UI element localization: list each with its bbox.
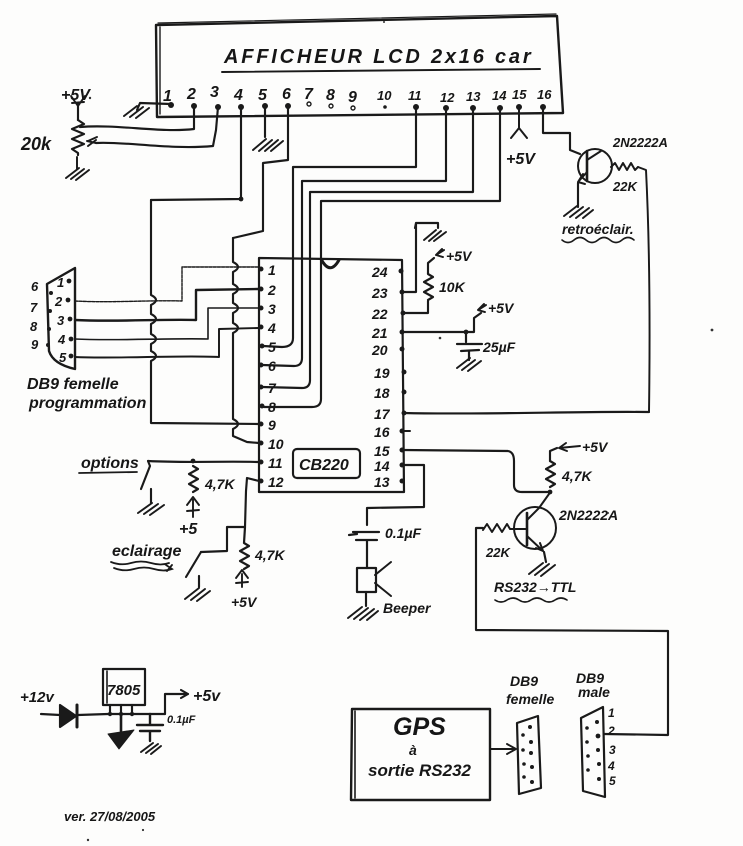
svg-text:+5: +5 bbox=[179, 521, 198, 538]
svg-text:+5V: +5V bbox=[506, 151, 536, 168]
wire pin16 to Q1 base bbox=[543, 107, 580, 154]
svg-text:7: 7 bbox=[268, 380, 277, 396]
svg-text:16: 16 bbox=[374, 424, 390, 440]
svg-text:8: 8 bbox=[268, 399, 276, 415]
svg-text:23: 23 bbox=[371, 285, 388, 301]
wire beeper to ground bbox=[365, 592, 367, 606]
wire wavy underline RS232-TTL bbox=[495, 598, 567, 602]
svg-text:9: 9 bbox=[348, 89, 357, 106]
svg-text:+5v: +5v bbox=[193, 688, 221, 705]
node pin5 bbox=[262, 103, 268, 109]
node pin8 bbox=[329, 104, 333, 108]
svg-text:DB9: DB9 bbox=[510, 673, 538, 689]
svg-text:13: 13 bbox=[374, 474, 390, 490]
wire CB220 pin12 to eclairage node bbox=[245, 478, 259, 527]
node J1 pin7 bbox=[48, 309, 52, 313]
transistor Q1 2N2222A bbox=[578, 149, 612, 183]
node J2 pins bbox=[528, 725, 532, 729]
svg-text:4,7K: 4,7K bbox=[204, 476, 235, 492]
svg-text:4: 4 bbox=[233, 87, 243, 104]
svg-text:2: 2 bbox=[607, 724, 615, 738]
svg-text:5: 5 bbox=[258, 87, 268, 104]
svg-text:14: 14 bbox=[492, 88, 507, 103]
wire emitter bbox=[577, 183, 579, 207]
node CB220 left pins 1-12 bbox=[259, 267, 264, 272]
ground bbox=[253, 139, 283, 151]
wire legs bbox=[110, 705, 132, 714]
wire pin11 to CB220 pin5 bbox=[263, 107, 416, 347]
wiper arrow bbox=[87, 137, 97, 146]
svg-text:+5V: +5V bbox=[582, 439, 609, 455]
svg-text:15: 15 bbox=[512, 87, 527, 102]
power +5V arrow bbox=[436, 249, 444, 257]
node pin7 bbox=[307, 102, 311, 106]
wire vertical bus V1 to CB220 pin9 bbox=[151, 200, 259, 424]
node J1 pin3 bbox=[68, 317, 73, 322]
svg-text:0.1µF: 0.1µF bbox=[385, 525, 422, 541]
svg-text:GPS: GPS bbox=[393, 713, 446, 741]
wire bbox=[137, 103, 171, 110]
node J1 pin5 bbox=[69, 354, 74, 359]
node pin16 bbox=[540, 104, 546, 110]
node junction bbox=[464, 330, 469, 335]
svg-text:7805: 7805 bbox=[107, 682, 141, 699]
node CB220 right pins 24-13 bbox=[399, 269, 404, 274]
ground bbox=[66, 157, 89, 180]
node pin1 bbox=[168, 102, 174, 108]
ground bbox=[529, 563, 555, 576]
wire pin5 to ground bbox=[264, 106, 266, 137]
svg-text:15: 15 bbox=[374, 443, 390, 459]
resistor R7 4.7K eclairage bbox=[240, 527, 249, 569]
svg-text:+5V: +5V bbox=[61, 87, 91, 104]
svg-text:+12v: +12v bbox=[20, 689, 55, 706]
wire title underline bbox=[222, 69, 540, 72]
svg-text:19: 19 bbox=[374, 365, 390, 381]
node junction bbox=[191, 459, 196, 464]
power +5V pin15 bbox=[511, 107, 527, 138]
node J3 pins bbox=[595, 720, 599, 724]
svg-text:16: 16 bbox=[537, 87, 552, 102]
svg-text:12: 12 bbox=[440, 90, 455, 105]
svg-text:options: options bbox=[81, 455, 139, 472]
svg-text:4: 4 bbox=[267, 320, 276, 336]
node pin2 bbox=[191, 103, 197, 109]
transistor Q2 2N2222A bbox=[514, 507, 556, 549]
connector J3 DB9 male bbox=[581, 707, 605, 797]
svg-text:1: 1 bbox=[163, 88, 172, 105]
svg-text:4: 4 bbox=[57, 332, 66, 347]
node J1 pin9 bbox=[46, 343, 50, 347]
wire pin14 to CB220 pin8 bbox=[264, 108, 500, 407]
svg-text:14: 14 bbox=[374, 458, 390, 474]
node J1 pin1 bbox=[67, 279, 72, 284]
wire CB220 pin16 stub bbox=[402, 430, 410, 432]
svg-text:17: 17 bbox=[374, 406, 391, 422]
wire pin12 to CB220 pin6 bbox=[262, 108, 446, 366]
svg-text:6: 6 bbox=[282, 86, 291, 103]
wire options to CB220 pin11 bbox=[148, 461, 258, 462]
wire CB220 pin15 to Q2 collector bbox=[402, 450, 548, 492]
svg-text:6: 6 bbox=[31, 279, 39, 294]
svg-text:5: 5 bbox=[609, 774, 616, 788]
svg-text:à: à bbox=[409, 742, 417, 758]
node J1 pin8 bbox=[47, 327, 51, 331]
svg-text:2N2222A: 2N2222A bbox=[558, 507, 618, 523]
svg-text:7: 7 bbox=[304, 86, 314, 103]
wire CB220 pin23 to ground bracket bbox=[402, 223, 438, 292]
IC label box CB220 bbox=[293, 449, 360, 478]
svg-text:8: 8 bbox=[326, 87, 335, 104]
wire wavy underline retroeclair bbox=[562, 238, 634, 243]
svg-text:AFFICHEUR LCD 2x16 car: AFFICHEUR LCD 2x16 car bbox=[223, 46, 533, 68]
switch SW2 eclairage bbox=[186, 552, 201, 587]
wire CB220 pin22 to 10K bbox=[403, 301, 428, 313]
svg-text:25µF: 25µF bbox=[482, 339, 516, 355]
wire CB220 pin21 bbox=[402, 313, 481, 332]
svg-text:DB9 femelle: DB9 femelle bbox=[27, 376, 119, 393]
svg-text:3: 3 bbox=[57, 313, 65, 328]
svg-text:4: 4 bbox=[607, 759, 615, 773]
capacitor C3 0.1uF bbox=[137, 714, 163, 741]
node junction bbox=[239, 197, 244, 202]
svg-text:2: 2 bbox=[267, 282, 276, 298]
wire pin4 down-left bbox=[151, 107, 241, 200]
resistor R6 4.7K options bbox=[189, 466, 198, 492]
node pin3 bbox=[215, 104, 221, 110]
diode D1 bbox=[60, 705, 76, 727]
power +5 arrow up bbox=[187, 497, 199, 517]
capacitor C2 0.1uF bbox=[349, 532, 379, 568]
ground bbox=[124, 106, 149, 118]
svg-text:programmation: programmation bbox=[28, 395, 147, 412]
wire pin3 to wiper bbox=[96, 107, 218, 147]
svg-text:Beeper: Beeper bbox=[383, 600, 432, 616]
svg-text:retroéclair.: retroéclair. bbox=[562, 221, 634, 237]
svg-text:20k: 20k bbox=[20, 134, 52, 154]
svg-text:11: 11 bbox=[408, 88, 422, 103]
svg-text:male: male bbox=[578, 684, 610, 700]
wire emitter to ground bbox=[544, 552, 546, 562]
node J1 pin4 bbox=[69, 337, 74, 342]
svg-text:4,7K: 4,7K bbox=[254, 547, 285, 563]
svg-text:+5V: +5V bbox=[446, 248, 473, 264]
wire pin6 staircase bbox=[233, 106, 288, 238]
node pin4 bbox=[238, 104, 244, 110]
beeper BZ1 bbox=[357, 568, 376, 592]
svg-text:22K: 22K bbox=[485, 545, 511, 560]
svg-text:sortie RS232: sortie RS232 bbox=[368, 761, 472, 780]
svg-text:ver. 27/08/2005: ver. 27/08/2005 bbox=[64, 809, 156, 824]
svg-text:1: 1 bbox=[57, 275, 64, 290]
svg-text:21: 21 bbox=[371, 325, 388, 341]
GPS box bbox=[351, 709, 490, 800]
ground arrow filled bbox=[120, 714, 123, 731]
wire CB220 pin17 long bbox=[404, 412, 649, 414]
svg-text:2: 2 bbox=[186, 86, 196, 103]
svg-text:10K: 10K bbox=[439, 279, 466, 295]
CB220 IC box U1 bbox=[259, 258, 404, 492]
svg-text:femelle: femelle bbox=[506, 691, 554, 707]
wire J1 pin5 to CB220 pin4 bbox=[75, 328, 258, 358]
svg-text:6: 6 bbox=[268, 358, 276, 374]
wire J1 pin3 to CB220 pin2 bbox=[75, 289, 258, 321]
wire +5V out bbox=[165, 690, 188, 714]
svg-text:2: 2 bbox=[54, 294, 63, 309]
wire bus under 7805 bbox=[108, 713, 165, 715]
node pin6 bbox=[285, 103, 291, 109]
svg-text:24: 24 bbox=[371, 264, 388, 280]
wire base resistor to DB9 male pin2 bbox=[476, 528, 668, 735]
regulator U3 7805 bbox=[103, 669, 145, 705]
switch SW1 options bbox=[141, 461, 151, 503]
resistor R4 4.7K bbox=[546, 461, 555, 487]
svg-text:9: 9 bbox=[268, 417, 276, 433]
speck marks bbox=[89, 97, 91, 99]
power +5V bbox=[71, 96, 85, 106]
svg-text:3: 3 bbox=[609, 743, 616, 757]
wire J1 pin2 to CB220 pin1 bbox=[75, 267, 258, 302]
svg-text:1: 1 bbox=[608, 706, 615, 720]
ground bbox=[424, 230, 446, 241]
power +5V arrow bbox=[478, 304, 486, 312]
svg-text:18: 18 bbox=[374, 385, 390, 401]
svg-text:13: 13 bbox=[466, 89, 481, 104]
power +5V arrow bbox=[559, 443, 580, 451]
notch bbox=[321, 259, 339, 268]
svg-text:CB220: CB220 bbox=[299, 457, 349, 474]
svg-text:22: 22 bbox=[371, 306, 388, 322]
resistor R2 22K bbox=[611, 163, 638, 170]
wire diode to 7805 bbox=[78, 714, 108, 715]
node J1 pin6 bbox=[49, 291, 53, 295]
svg-text:20: 20 bbox=[371, 342, 388, 358]
svg-text:4,7K: 4,7K bbox=[561, 468, 592, 484]
svg-text:3: 3 bbox=[268, 301, 276, 317]
node pin12 bbox=[443, 105, 449, 111]
svg-text:22K: 22K bbox=[612, 179, 638, 194]
svg-text:+5V: +5V bbox=[231, 594, 258, 610]
node pin9 bbox=[351, 106, 355, 110]
svg-text:11: 11 bbox=[268, 455, 283, 471]
svg-text:9: 9 bbox=[31, 337, 39, 352]
connector J1 DB9 femelle programmation bbox=[47, 268, 75, 369]
node pin15 bbox=[516, 104, 522, 110]
svg-text:10: 10 bbox=[268, 436, 284, 452]
wire underline options bbox=[79, 472, 137, 473]
wire node to switch bbox=[201, 527, 245, 552]
wire J1 pin4 to CB220 pin3 bbox=[75, 308, 258, 340]
node pin14 bbox=[497, 105, 503, 111]
potentiometer R1 20k bbox=[72, 120, 84, 155]
ground bbox=[348, 607, 378, 620]
wire pin13 to CB220 pin7 bbox=[262, 108, 473, 388]
node pin10 bbox=[383, 105, 387, 109]
node junction bbox=[548, 490, 553, 495]
svg-text:2N2222A: 2N2222A bbox=[612, 135, 668, 150]
node pin13 bbox=[470, 105, 476, 111]
ground bbox=[185, 588, 210, 601]
svg-text:8: 8 bbox=[30, 319, 38, 334]
ground bbox=[141, 743, 161, 754]
LCD module box U2 bbox=[156, 16, 563, 117]
svg-text:10: 10 bbox=[377, 88, 392, 103]
svg-text:0.1µF: 0.1µF bbox=[167, 714, 196, 726]
svg-text:5: 5 bbox=[59, 350, 67, 365]
wire underline eclairage bbox=[111, 562, 172, 572]
node J1 pin2 bbox=[66, 298, 71, 303]
ground bbox=[138, 503, 164, 515]
connector J2 DB9 femelle (GPS) bbox=[517, 716, 541, 794]
svg-text:7: 7 bbox=[30, 300, 38, 315]
node pin11 bbox=[413, 104, 419, 110]
wire GPS arrow to DB9 bbox=[491, 744, 516, 754]
svg-text:RS232→TTL: RS232→TTL bbox=[494, 579, 576, 595]
svg-text:12: 12 bbox=[268, 474, 284, 490]
ground bbox=[457, 358, 481, 371]
capacitor C1 25uF bbox=[457, 332, 482, 360]
svg-text:eclairage: eclairage bbox=[112, 543, 181, 560]
wire pin2 to potentiometer bbox=[80, 106, 194, 130]
wire vertical bus V2 to CB220 pin10 bbox=[233, 238, 259, 443]
power +5V arrow up bbox=[236, 570, 248, 587]
svg-text:+5V: +5V bbox=[488, 300, 515, 316]
wire +12V input bbox=[41, 714, 60, 715]
svg-text:3: 3 bbox=[210, 84, 219, 101]
svg-text:5: 5 bbox=[268, 339, 276, 355]
ground bbox=[564, 206, 593, 218]
wire CB220 pin14 to 0.1uF cap bbox=[367, 465, 424, 525]
resistor R3 10K bbox=[424, 273, 433, 300]
svg-text:1: 1 bbox=[268, 262, 276, 278]
resistor R5 22K base bbox=[483, 524, 527, 532]
